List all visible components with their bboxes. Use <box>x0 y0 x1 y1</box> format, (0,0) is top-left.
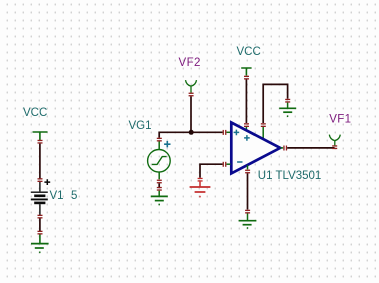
tick ground pin (SHDN) <box>285 99 290 103</box>
ground (red, at -input) <box>190 182 211 197</box>
ground (right of U1 top) <box>279 103 296 117</box>
tick ground pin (left) <box>38 231 43 235</box>
tick U1 V+ pin <box>244 123 249 127</box>
tick U1 output pin <box>283 146 287 151</box>
generator VG1 waveform <box>152 157 167 165</box>
pin U1 SHDN (green) <box>262 127 264 140</box>
wire U1 output to VF1 <box>287 147 334 149</box>
svg-text:VF2: VF2 <box>179 57 201 69</box>
tick VF2 pin <box>189 93 194 97</box>
svg-text:U1 TLV3501: U1 TLV3501 <box>258 170 322 182</box>
pin U1 V- (green) <box>247 165 249 169</box>
tick battery - pin <box>38 215 43 219</box>
pin U1 +input (green) <box>227 131 231 133</box>
wire U1 SHDN up-over to ground <box>263 84 287 123</box>
pin U1 -input (green) <box>227 163 231 165</box>
U1 supply + marker <box>244 135 250 141</box>
wire VF2 to node A <box>190 96 192 132</box>
svg-text:5: 5 <box>71 190 77 202</box>
tick ground pin (V-) <box>245 210 250 214</box>
battery V1 <box>31 182 48 215</box>
pin VG1 top (green) <box>158 142 160 150</box>
wire node A to U1 +input <box>191 131 223 133</box>
pin VG1 bottom (green) <box>158 172 160 179</box>
probe VF1 (voltage pin) <box>329 135 340 146</box>
tick U1 V- pin <box>245 170 250 174</box>
op-amp U1 comparator triangle <box>231 123 280 174</box>
tick U1 +input pin <box>223 130 227 135</box>
wire VCC to U1 V+ pin <box>245 80 247 124</box>
tick VF1 pin <box>332 145 337 149</box>
ground (below U1) <box>239 214 257 229</box>
svg-text:VG1: VG1 <box>129 120 152 132</box>
wire VG1 top to node A <box>159 132 190 138</box>
tick VG1 - pin <box>157 180 162 184</box>
generator VG1 circle <box>148 150 171 173</box>
power rail VCC symbol (top) <box>241 68 251 76</box>
tick pin-join V1 top rail <box>38 140 43 144</box>
tick U1 SHDN pin <box>261 123 266 127</box>
svg-text:V1: V1 <box>50 190 64 202</box>
battery plus sign <box>44 179 50 185</box>
svg-text:VCC: VCC <box>23 107 47 119</box>
tick battery + pin <box>38 178 43 182</box>
tick VCC rail pin (top) <box>244 76 249 80</box>
wire U1 -input to ground <box>200 164 223 178</box>
U1 -input marker <box>237 161 242 163</box>
wire VG1 to ground <box>158 183 160 187</box>
tick VG1 + pin <box>157 138 162 142</box>
node A junction dot <box>189 130 194 135</box>
svg-text:VCC: VCC <box>237 46 261 58</box>
tick ground pin (VG1) <box>157 187 162 191</box>
pin U1 V+ (green) <box>245 127 247 131</box>
wire battery to ground <box>39 219 41 232</box>
generator VG1 plus marker <box>164 141 170 147</box>
tick ground pin (-input) <box>198 178 203 182</box>
svg-text:VF1: VF1 <box>329 113 351 125</box>
ground (below VG1) <box>151 191 168 205</box>
wire U1 V- to ground <box>247 173 249 209</box>
probe VF2 (voltage pin) <box>186 80 197 93</box>
power rail VCC symbol (left) <box>33 132 48 140</box>
ground (left, below V1) <box>31 235 49 253</box>
tick U1 -input pin <box>223 162 227 167</box>
pin U1 output (green) <box>281 147 284 149</box>
U1 +input marker <box>234 130 240 136</box>
wire VCC rail to battery <box>39 144 41 179</box>
